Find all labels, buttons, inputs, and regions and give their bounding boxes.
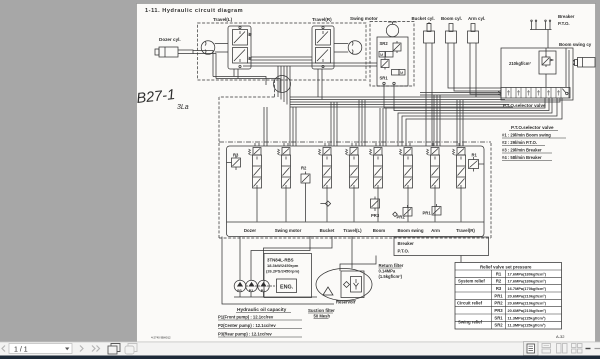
svg-text:Swing motor: Swing motor bbox=[350, 16, 378, 21]
svg-text:17.6MPa(180kgf/cm²): 17.6MPa(180kgf/cm²) bbox=[508, 271, 547, 276]
svg-text:P2(Center pump) : 12.1cc/rev: P2(Center pump) : 12.1cc/rev bbox=[218, 323, 276, 328]
wires travel valve L down to trunk bbox=[234, 69, 238, 79]
svg-text:PR2: PR2 bbox=[397, 215, 406, 220]
dozer cylinder bbox=[155, 47, 193, 57]
svg-text:Breaker: Breaker bbox=[398, 241, 415, 246]
wire upper feed pair bbox=[420, 93, 501, 96]
continuous view icon bbox=[542, 344, 551, 354]
svg-text:Hydraulic oil capacity: Hydraulic oil capacity bbox=[237, 307, 287, 313]
svg-text:20.6MPa(210kgf/cm²): 20.6MPa(210kgf/cm²) bbox=[508, 293, 547, 298]
suction line bbox=[234, 292, 317, 297]
pump pressure line P2 bbox=[251, 237, 310, 281]
svg-text:4-2740 9BH012: 4-2740 9BH012 bbox=[151, 336, 171, 340]
drop wires into valve bank bbox=[264, 107, 267, 146]
P.T.O. unit box bbox=[501, 48, 573, 100]
svg-text:Relief valve set pressure: Relief valve set pressure bbox=[480, 264, 532, 269]
svg-text:R1: R1 bbox=[496, 271, 502, 276]
title bbox=[145, 8, 243, 14]
svg-text:210kgf/cm²: 210kgf/cm² bbox=[509, 61, 531, 66]
svg-text:Travel(R): Travel(R) bbox=[312, 17, 332, 22]
page number dropdown bbox=[9, 344, 72, 354]
check valve boom swing bbox=[393, 212, 398, 217]
svg-text:11.3MPa(115kgf/cm²): 11.3MPa(115kgf/cm²) bbox=[508, 315, 547, 320]
wire tank return drop bbox=[351, 237, 353, 269]
svg-text:ENG.: ENG. bbox=[280, 285, 294, 291]
svg-text:R1: R1 bbox=[472, 153, 478, 158]
zoom slider track bbox=[595, 348, 600, 350]
svg-text:Dozer: Dozer bbox=[244, 228, 256, 233]
travel motor L bbox=[201, 41, 215, 55]
boom swing cylinder bbox=[573, 58, 595, 68]
svg-text:50 Mesh: 50 Mesh bbox=[314, 314, 331, 319]
label Swing motor bbox=[350, 16, 378, 21]
svg-text:3TN84L-RBS: 3TN84L-RBS bbox=[267, 258, 294, 263]
spool valve Swing motor bbox=[278, 143, 291, 222]
svg-text:(1.5kgf/cm²): (1.5kgf/cm²) bbox=[379, 274, 403, 279]
svg-text:Bucket cyl.: Bucket cyl. bbox=[412, 16, 435, 21]
spool valve Travel L bbox=[346, 143, 359, 222]
pump P2 bbox=[246, 280, 258, 293]
svg-text:Breaker: Breaker bbox=[558, 14, 575, 19]
section labels in valve bank bbox=[244, 228, 476, 233]
label Suction filter bbox=[308, 308, 335, 319]
breaker pto section box bbox=[394, 237, 489, 256]
pump pressure line P3 bbox=[239, 237, 241, 281]
wires valve R to motor R bbox=[334, 44, 348, 53]
svg-text:M: M bbox=[380, 52, 383, 57]
svg-text:SR2: SR2 bbox=[494, 323, 503, 328]
main bus wires bbox=[290, 97, 560, 107]
label Return filter bbox=[379, 263, 404, 279]
relief valve R1 bbox=[469, 153, 485, 172]
svg-text:SR2: SR2 bbox=[380, 41, 389, 46]
svg-text:Boom swing cy: Boom swing cy bbox=[559, 42, 592, 47]
facing continuous icon bbox=[572, 344, 583, 354]
pump capacity rows bbox=[218, 315, 276, 337]
travel valve L bbox=[228, 26, 251, 69]
svg-text:1-11. Hydraulic circuit diagr: 1-11. Hydraulic circuit diagram bbox=[145, 8, 243, 14]
wires inside PTO box bbox=[546, 48, 575, 98]
return filter bbox=[341, 271, 364, 298]
svg-text:Return filter: Return filter bbox=[379, 263, 404, 268]
relief valve PR1 bbox=[423, 204, 442, 216]
svg-text:Swing motor: Swing motor bbox=[275, 228, 302, 233]
svg-text:16.7MPa(170kgf/cm²): 16.7MPa(170kgf/cm²) bbox=[508, 286, 547, 291]
breaker coupler posts bbox=[530, 20, 552, 48]
travel motor R bbox=[348, 41, 362, 55]
svg-text:P1(Front pump) : 12.1cc/rev: P1(Front pump) : 12.1cc/rev bbox=[218, 315, 274, 320]
svg-text:R3: R3 bbox=[496, 286, 502, 291]
drain line left bbox=[222, 237, 334, 305]
swivel bundle wires bbox=[278, 66, 290, 107]
svg-text:P3(Rear pump) : 12.1cc/rev: P3(Rear pump) : 12.1cc/rev bbox=[218, 332, 272, 337]
svg-text:P.T.O.: P.T.O. bbox=[398, 249, 410, 254]
svg-text:3La: 3La bbox=[177, 104, 189, 111]
main control valve bank bbox=[227, 146, 485, 237]
svg-text:A-32: A-32 bbox=[556, 334, 565, 339]
toolbar bbox=[0, 342, 600, 356]
label Dozer cyl. bbox=[159, 37, 181, 42]
PTO flow table bbox=[502, 125, 554, 160]
svg-text:20.6MPa(210kgf/cm²): 20.6MPa(210kgf/cm²) bbox=[508, 308, 547, 313]
label Arm cyl. bbox=[468, 16, 485, 21]
svg-text:#4 : 58l/min Breaker: #4 : 58l/min Breaker bbox=[502, 155, 542, 160]
svg-text:Suction filter: Suction filter bbox=[308, 308, 335, 313]
svg-text:PR2: PR2 bbox=[494, 301, 503, 306]
label Boom cyl. bbox=[441, 16, 462, 21]
travel valve R bbox=[312, 26, 334, 69]
spool valve Boom swing bbox=[400, 143, 413, 222]
spool valve Boom bbox=[370, 143, 383, 222]
dashed enclosure: travel group (undercarriage) bbox=[198, 23, 367, 80]
relief valve R3 bbox=[227, 153, 241, 171]
wires dozer to trunk bbox=[193, 51, 216, 79]
spool valve Bucket bbox=[319, 143, 332, 222]
svg-text:Travel(L): Travel(L) bbox=[213, 17, 233, 22]
right riser wires to selector valve bbox=[398, 98, 562, 146]
prev page chevron bbox=[2, 346, 5, 352]
svg-text:#1 : 29l/min Boom swing: #1 : 29l/min Boom swing bbox=[502, 133, 551, 138]
svg-text:Arm: Arm bbox=[431, 228, 440, 233]
svg-text:PR3: PR3 bbox=[371, 213, 380, 218]
return line bbox=[340, 256, 461, 272]
svg-text:Boom: Boom bbox=[373, 228, 386, 233]
svg-text:PR1: PR1 bbox=[423, 211, 432, 216]
svg-text:PR3: PR3 bbox=[494, 308, 503, 313]
label 210kgf bbox=[509, 61, 531, 66]
svg-text:Travel(L): Travel(L) bbox=[343, 228, 362, 233]
relief valve R2 bbox=[301, 166, 310, 222]
last page chevrons bbox=[92, 346, 100, 352]
svg-text:Circuit relief: Circuit relief bbox=[457, 301, 483, 306]
swing unit box bbox=[377, 37, 408, 86]
next page chevron bbox=[80, 346, 83, 352]
svg-text:SR1: SR1 bbox=[380, 76, 389, 81]
spool valve Travel R bbox=[453, 143, 466, 222]
dashed swivel link bbox=[219, 80, 491, 238]
swing motor bbox=[386, 22, 398, 37]
svg-text:#2 : 29l/min P.T.O.: #2 : 29l/min P.T.O. bbox=[502, 140, 537, 145]
label Hydraulic oil capacity bbox=[237, 307, 287, 313]
svg-text:P3: P3 bbox=[237, 289, 242, 293]
pump pressure line P1 bbox=[264, 237, 333, 281]
facing view icon bbox=[557, 344, 568, 354]
tiny print code bbox=[151, 336, 171, 340]
single page view icon selected bbox=[524, 342, 539, 356]
spool valve Arm bbox=[427, 143, 440, 222]
svg-text:Boom swing: Boom swing bbox=[397, 228, 423, 233]
svg-text:P.T.O.selector valve: P.T.O.selector valve bbox=[503, 103, 546, 108]
svg-text:P.T.O.selector valve: P.T.O.selector valve bbox=[511, 125, 554, 130]
engine labels bbox=[266, 258, 300, 274]
wires motor L to valve bbox=[215, 44, 228, 53]
wires swing box down bbox=[384, 85, 549, 111]
svg-text:Travel(R): Travel(R) bbox=[456, 228, 475, 233]
handwritten annotation B27-1 3LA bbox=[136, 87, 189, 111]
relief valve PR3 bbox=[371, 197, 380, 219]
svg-text:PR1: PR1 bbox=[494, 293, 503, 298]
pump shaft bbox=[246, 285, 277, 287]
P.T.O. relief valve 210kgf bbox=[539, 51, 556, 74]
page bbox=[137, 4, 596, 343]
wires between travel valves bbox=[243, 57, 377, 66]
bucket cylinder bbox=[424, 22, 435, 43]
svg-text:17.6MPa(180kgf/cm²): 17.6MPa(180kgf/cm²) bbox=[508, 279, 547, 284]
svg-text:#3 : 29l/min Breaker: #3 : 29l/min Breaker bbox=[502, 148, 542, 153]
page number A-32 bbox=[556, 334, 565, 339]
svg-text:M: M bbox=[400, 70, 403, 75]
label Travel(L) bbox=[213, 17, 233, 22]
cylinder wires bbox=[426, 43, 432, 146]
svg-text:1 / 1: 1 / 1 bbox=[14, 347, 28, 354]
svg-text:System relief: System relief bbox=[458, 279, 485, 284]
swivel joint bbox=[274, 76, 291, 93]
check valve bucket bbox=[320, 201, 330, 206]
relief valve set pressure table bbox=[455, 263, 562, 330]
svg-text:20.6MPa(210kgf/cm²): 20.6MPa(210kgf/cm²) bbox=[508, 301, 547, 306]
pump P3 bbox=[234, 280, 246, 293]
zoom out minus bbox=[586, 348, 591, 350]
label Breaker P.T.O. top right bbox=[558, 14, 575, 26]
trunk wires to swivel bbox=[213, 77, 280, 93]
engine box bbox=[264, 254, 312, 298]
label P.T.O. selector valve bbox=[503, 103, 546, 108]
dashed enclosure: swing motor group bbox=[370, 22, 414, 87]
svg-text:Swing relief: Swing relief bbox=[458, 320, 483, 325]
svg-text:0.14MPa: 0.14MPa bbox=[379, 269, 396, 274]
P.T.O. selector valve bbox=[498, 88, 570, 99]
boom cylinder bbox=[446, 24, 457, 44]
svg-text:Bucket: Bucket bbox=[320, 228, 335, 233]
svg-text:(26.2PS/2450rpm): (26.2PS/2450rpm) bbox=[266, 269, 300, 274]
svg-text:SR1: SR1 bbox=[494, 315, 503, 320]
svg-text:P.T.O.: P.T.O. bbox=[558, 21, 570, 26]
wires valve R down bbox=[318, 69, 322, 100]
svg-text:P2: P2 bbox=[249, 289, 254, 293]
svg-text:Boom cyl.: Boom cyl. bbox=[441, 16, 462, 21]
svg-text:R2: R2 bbox=[301, 166, 307, 171]
arm cylinder bbox=[468, 24, 479, 44]
label Bucket cyl. bbox=[412, 16, 435, 21]
status bar bbox=[0, 356, 600, 359]
ENG block bbox=[277, 279, 297, 293]
label Boom swing cyl bbox=[559, 42, 592, 47]
svg-text:P1: P1 bbox=[261, 289, 266, 293]
svg-text:18.3kW/2450rpm: 18.3kW/2450rpm bbox=[267, 263, 299, 268]
spool valve Dozer bbox=[249, 143, 262, 222]
svg-text:Dozer cyl.: Dozer cyl. bbox=[159, 37, 181, 42]
dash-dot top of valve bank enclosure bbox=[219, 141, 491, 143]
svg-text:R2: R2 bbox=[496, 279, 502, 284]
svg-text:11.3MPa(115kgf/cm²): 11.3MPa(115kgf/cm²) bbox=[508, 323, 547, 328]
snapshot icon bbox=[108, 344, 120, 355]
label Travel(R) bbox=[312, 17, 332, 22]
relief valve PR2 bbox=[397, 205, 413, 220]
pump P1 bbox=[258, 280, 270, 293]
clipboard icon grayed bbox=[125, 344, 137, 355]
reservoir bbox=[316, 269, 372, 305]
svg-text:Arm cyl.: Arm cyl. bbox=[468, 16, 485, 21]
